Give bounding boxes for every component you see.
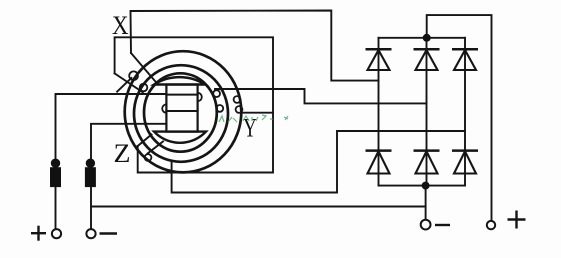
svg-text:X: X	[112, 11, 129, 40]
svg-text:Z: Z	[114, 139, 131, 168]
